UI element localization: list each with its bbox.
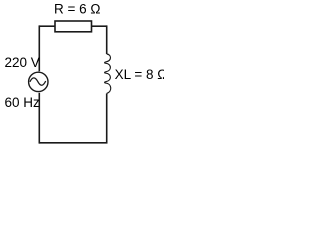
svg-text:60 Hz: 60 Hz	[5, 95, 41, 110]
wire left vertical upper	[38, 25, 40, 71]
sine wave inside source	[30, 78, 46, 85]
svg-text:XL = 8 Ω: XL = 8 Ω	[115, 67, 164, 82]
inductor L1	[105, 54, 111, 93]
wire right vertical lower	[106, 94, 108, 143]
AC source V1	[29, 72, 48, 91]
wire right vertical upper	[106, 25, 108, 54]
wire top-left horizontal	[39, 25, 55, 27]
svg-text:220 V: 220 V	[5, 55, 40, 70]
resistor R1	[55, 21, 92, 32]
wire bottom horizontal	[39, 142, 107, 144]
svg-text:R = 6 Ω: R = 6 Ω	[54, 1, 101, 16]
wire left vertical lower	[38, 93, 40, 144]
wire top-right horizontal	[92, 25, 107, 27]
